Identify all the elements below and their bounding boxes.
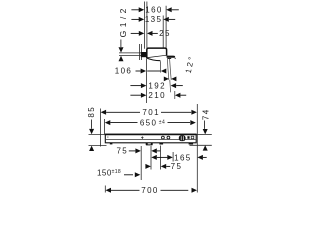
700 left ext line [104,186,106,193]
svg-text:85: 85 [87,106,96,118]
right ext line common [196,104,198,193]
svg-text:75: 75 [116,147,128,156]
lower ext line V1 [140,146,142,180]
74 leader line [203,121,205,129]
svg-text:75: 75 [171,162,183,171]
G1/2 up arrow [119,56,124,62]
G1/2 down arrow [119,47,124,52]
dimension 150+-18 [97,169,140,178]
dimension 75 first [116,147,160,156]
svg-text:74: 74 [202,108,211,120]
wall connector block [141,52,147,57]
spray stream left edge [167,59,169,80]
right top ref line [196,133,211,135]
74 up arrow [203,145,208,150]
svg-text:192: 192 [148,81,166,90]
head bottom swoosh [147,58,160,61]
85 down arrow [89,129,94,134]
74 down arrow [203,129,208,134]
lower ext line V4 [172,152,174,162]
dimension 106 [115,67,167,76]
connection stub lines [119,52,144,54]
left bottom ref line [89,145,107,147]
G1/2 leader line [120,40,122,48]
lip end tail [174,58,177,59]
dimension 135 [131,15,175,24]
dimension 165 [151,153,206,162]
right foot [189,143,194,145]
wall lines [139,44,141,60]
outlet ext line [160,61,162,72]
bar left tick [107,136,109,137]
bar top edge thick [105,133,197,135]
svg-text:150: 150 [97,169,112,178]
85 leader line [91,120,93,129]
svg-text:±18: ±18 [112,169,122,175]
small dark square [187,136,189,139]
svg-text:25: 25 [159,29,171,38]
spray axis ext line [169,80,172,92]
lower ext line V2 [150,146,152,170]
svg-text:106: 106 [115,67,133,76]
dimension 160 [131,6,178,15]
svg-text:165: 165 [174,153,192,162]
lower ext line V3 [160,146,162,170]
svg-text:700: 700 [141,186,159,195]
supply pipe lines [143,2,145,49]
svg-text:160: 160 [145,6,163,15]
right bottom ref line [190,144,212,146]
svg-text:650: 650 [140,118,158,127]
svg-text:210: 210 [148,91,166,100]
spray stream right edge [170,59,172,80]
650 left ext line [104,119,106,134]
lip underline [167,57,171,59]
ext line 160 right [165,6,167,49]
dimension 701 [101,108,197,117]
svg-text:G1/2: G1/2 [118,5,128,37]
210 ext line [174,91,176,99]
middle foot [159,143,163,145]
svg-text:135: 135 [145,15,163,24]
end cap square [191,136,194,139]
dimension 75 second [145,162,182,171]
left top ref line [89,133,106,135]
dimension 210 [130,91,186,100]
shower bar body [105,134,196,143]
svg-text:701: 701 [142,108,160,117]
dimension 192 [130,81,182,90]
svg-text:±4: ±4 [159,119,165,125]
dimension 25 [131,29,171,38]
bar mid line [106,138,196,140]
85 up arrow [89,146,94,151]
bar centre cross [141,136,144,139]
spout lip [167,56,176,58]
shower head body [147,48,167,58]
outlet circles [162,136,165,139]
ext line below head [146,59,148,103]
ext line 135 right [162,16,164,49]
svg-text:12°: 12° [184,54,197,74]
701 left ext line [99,109,101,147]
dimension 700 [106,186,198,195]
left foot [110,143,113,145]
control knob [179,135,186,141]
hose outlet below bar [146,143,153,146]
head face seam diagonal [147,55,167,57]
dimension 650+-4 [105,118,196,127]
12 degree arrows pair [164,77,169,82]
